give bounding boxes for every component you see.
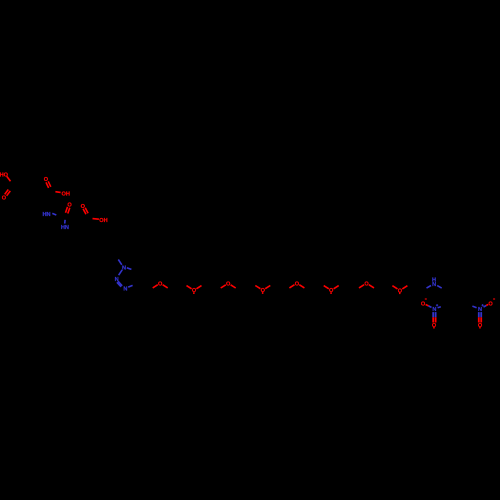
svg-text:N: N <box>122 266 126 272</box>
nitro group para <box>472 306 476 308</box>
PEG ether O5 <box>289 285 294 288</box>
urea C=O <box>66 207 68 213</box>
svg-text:O: O <box>295 281 300 287</box>
svg-text:O: O <box>2 196 7 202</box>
triazole ring <box>118 260 122 265</box>
svg-text:HN: HN <box>61 225 69 231</box>
PEG ether O8 <box>392 286 397 289</box>
PEG ether O4 <box>255 286 260 289</box>
svg-text:O: O <box>158 281 163 287</box>
svg-text:O: O <box>226 281 231 287</box>
PEG ether O1 <box>153 285 158 288</box>
svg-text:HN: HN <box>42 212 50 218</box>
PEG ether O7 <box>359 285 364 288</box>
urea NH (lower) <box>64 220 66 224</box>
svg-text:N: N <box>432 282 436 288</box>
svg-text:O: O <box>67 203 72 209</box>
svg-text:O: O <box>488 301 493 307</box>
svg-text:OH: OH <box>99 218 107 224</box>
svg-text:O: O <box>364 281 369 287</box>
svg-text:N: N <box>123 286 127 292</box>
PEG ether O2 <box>187 286 192 289</box>
aniline N-H <box>427 286 432 289</box>
PEG ether O6 <box>324 286 329 289</box>
svg-text:O: O <box>421 301 426 307</box>
svg-text:OH: OH <box>62 191 70 197</box>
PEG ether O3 <box>221 285 226 288</box>
nitro group ortho <box>438 307 441 308</box>
